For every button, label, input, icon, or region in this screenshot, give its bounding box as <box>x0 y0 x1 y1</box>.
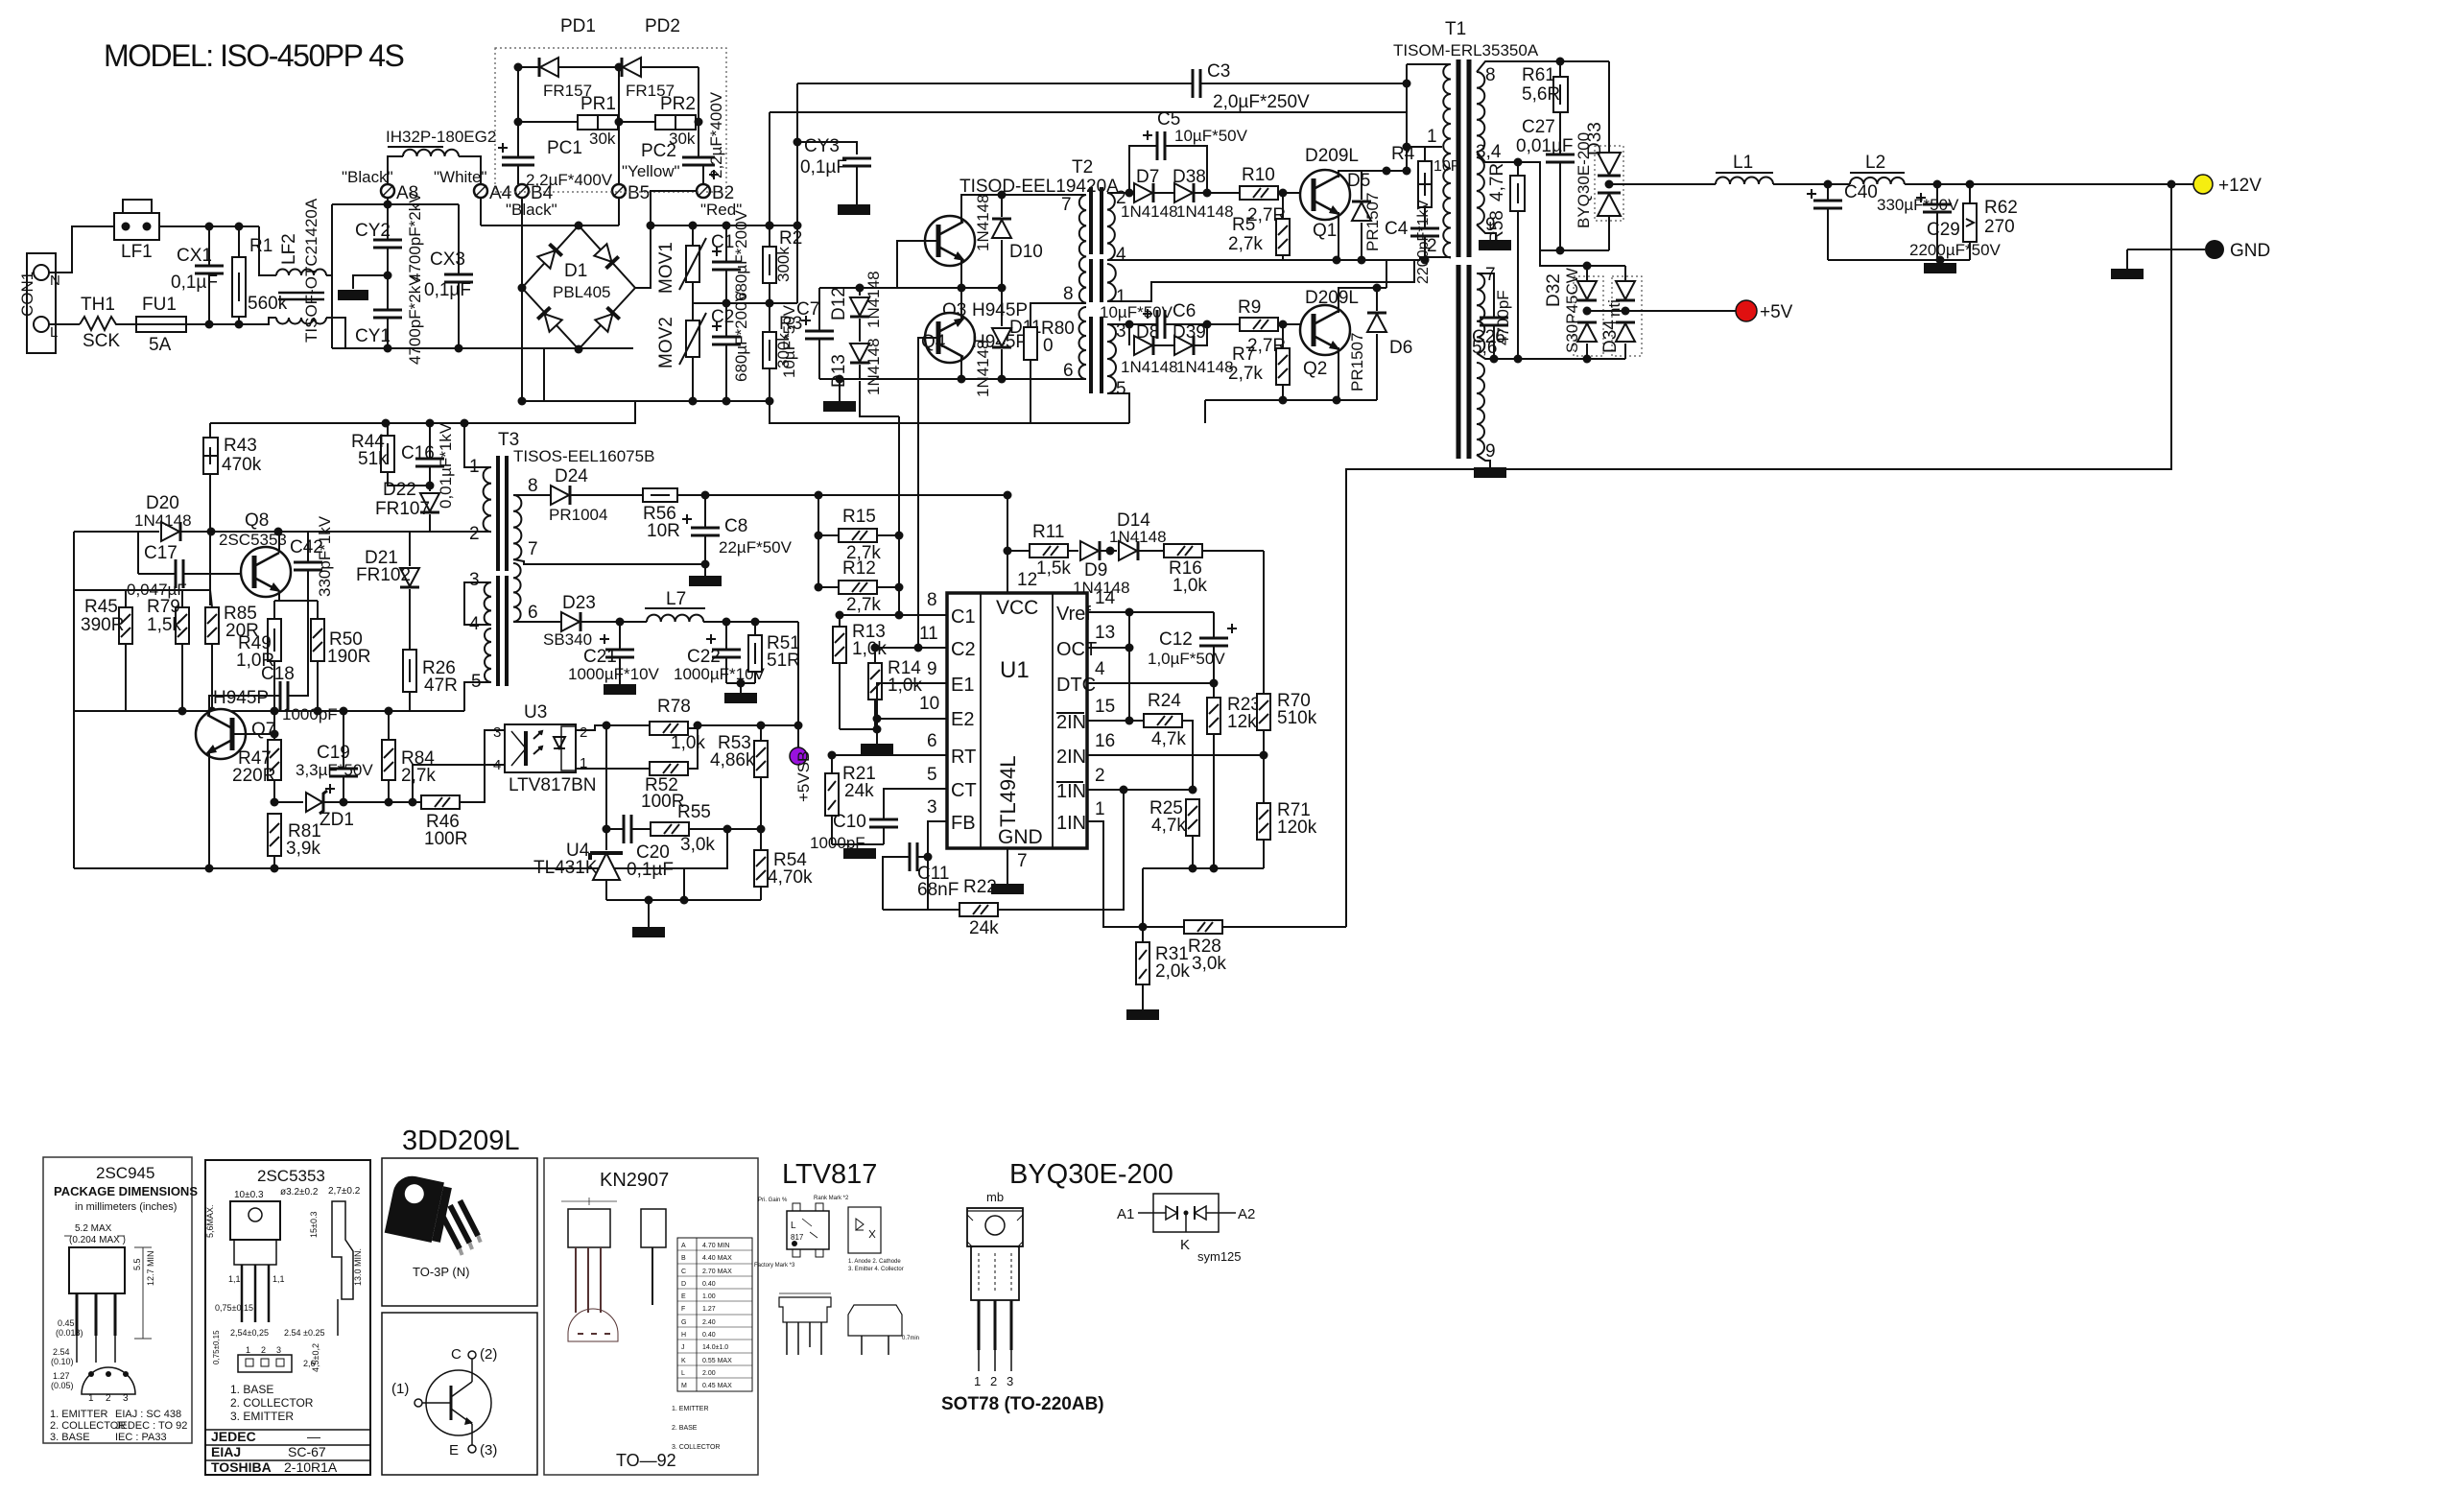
wire neg rail y418 <box>522 400 770 402</box>
capacitor C6 <box>1129 323 1157 325</box>
svg-text:3DD209L: 3DD209L <box>402 1126 520 1156</box>
bridge diode bottom-right <box>595 307 619 331</box>
wire D22 bottom <box>429 514 431 532</box>
wire CY3 bottom <box>856 166 858 204</box>
wire Q4 collector <box>960 288 962 320</box>
svg-text:GND: GND <box>998 826 1043 848</box>
junction <box>689 397 698 406</box>
svg-text:2: 2 <box>1427 236 1437 256</box>
svg-text:8: 8 <box>1485 65 1496 85</box>
svg-text:sym125: sym125 <box>1197 1249 1242 1264</box>
svg-text:0,1µF: 0,1µF <box>424 280 471 300</box>
capacitor C42 <box>307 532 309 562</box>
junction <box>1333 256 1341 265</box>
wire to R11 <box>1007 550 1030 552</box>
wire OCT row <box>1087 647 1129 649</box>
T3 winding 3-4 <box>485 582 491 625</box>
svg-text:H: H <box>681 1332 686 1339</box>
svg-text:270: 270 <box>1984 217 2015 237</box>
svg-text:C12: C12 <box>1159 629 1193 650</box>
svg-text:E2: E2 <box>951 709 974 730</box>
junction <box>723 222 731 230</box>
svg-text:3. EMITTER: 3. EMITTER <box>230 1410 294 1423</box>
svg-text:FR102: FR102 <box>356 565 411 585</box>
svg-text:D12: D12 <box>829 287 849 320</box>
junction <box>695 118 703 127</box>
ground U4 <box>632 927 665 937</box>
wire C3 rail right <box>1201 83 1407 84</box>
svg-text:mb: mb <box>986 1190 1004 1204</box>
svg-text:390R: 390R <box>81 615 124 635</box>
2SC5353 side view <box>332 1201 353 1299</box>
wire R84 bottom <box>388 780 390 802</box>
wire R28 right <box>1222 926 1346 928</box>
svg-text:D34: D34 <box>1600 320 1621 353</box>
wire bottom rail y905 <box>74 867 684 869</box>
wire PR2 right <box>696 121 699 123</box>
wire x831 vertical <box>796 83 798 303</box>
wire bridge right to B2 <box>635 191 697 288</box>
T2 winding 3-5 <box>1107 324 1116 393</box>
wire R1 top <box>238 226 240 257</box>
svg-text:R5: R5 <box>1232 215 1255 235</box>
diode D21 <box>409 532 411 566</box>
svg-text:D209L: D209L <box>1305 288 1359 308</box>
junction <box>1583 307 1592 316</box>
junction <box>645 896 653 905</box>
C8 plus <box>682 514 692 524</box>
wire Q8 collector <box>278 532 280 553</box>
svg-text:D209L: D209L <box>1305 146 1359 166</box>
junction <box>1383 167 1391 176</box>
svg-text:0.40: 0.40 <box>702 1332 716 1339</box>
wire R62 bottom <box>1969 242 1971 260</box>
wire R25 bottom <box>1192 836 1194 868</box>
junction <box>1936 256 1945 265</box>
svg-text:14.0±1.0: 14.0±1.0 <box>702 1344 728 1351</box>
wire T2 pin7 stub <box>1078 194 1086 196</box>
diode D22 symbol <box>420 493 439 512</box>
wire bottom rail y905 <box>1143 867 1264 869</box>
package box 3DD209L symbol <box>382 1313 537 1475</box>
svg-text:2IN: 2IN <box>1056 712 1086 733</box>
varistor MOV2 <box>686 320 699 357</box>
wire to R12 <box>818 586 839 588</box>
svg-text:C6: C6 <box>1173 301 1196 321</box>
junction <box>205 865 214 873</box>
junction <box>701 560 710 569</box>
junction <box>409 798 417 807</box>
svg-text:2-10R1A: 2-10R1A <box>284 1459 338 1475</box>
svg-text:5A: 5A <box>149 335 172 355</box>
svg-text:15: 15 <box>1095 697 1115 717</box>
junction <box>426 419 435 428</box>
wire R43 bottom column <box>209 474 211 605</box>
wire L1 to L2 <box>1773 183 1850 185</box>
svg-text:R1: R1 <box>249 236 272 256</box>
svg-text:PC2: PC2 <box>641 141 676 161</box>
wire CY1 bottom <box>387 318 389 348</box>
junction <box>1125 608 1134 617</box>
wire CY3 stub <box>797 142 857 154</box>
wire R62 top <box>1969 184 1971 203</box>
wire D13 bottom <box>859 365 861 379</box>
wire R16 right <box>1202 550 1264 552</box>
connector CON1 <box>27 253 56 353</box>
wire C12 bottom <box>1213 646 1215 683</box>
wire T2 pin8 stub <box>1031 303 1086 327</box>
bridge diode bottom-left <box>537 307 561 331</box>
wire U3 pin1 to R52 <box>576 768 650 770</box>
svg-text:R12: R12 <box>842 558 876 579</box>
wire C7 top <box>818 288 820 331</box>
svg-text:0.55 MAX: 0.55 MAX <box>702 1358 732 1364</box>
svg-text:12: 12 <box>1017 570 1037 590</box>
wire C22 bottom <box>725 657 727 683</box>
wire D20 right <box>180 531 210 533</box>
wire PD1-PD2 <box>558 66 622 68</box>
wire rail y741 <box>74 710 464 712</box>
wire Q2 emitter <box>1338 347 1339 400</box>
wire MOV2 bottom <box>692 357 694 401</box>
T2 secondary winding 2-4 <box>1107 193 1115 260</box>
terminal B4 <box>515 184 529 198</box>
wire x1466 vertical <box>1406 64 1408 171</box>
wire R13 top <box>839 615 841 627</box>
junction <box>455 344 463 353</box>
svg-text:D7: D7 <box>1136 167 1159 187</box>
capacitor CX3 plates <box>444 274 473 282</box>
resistor R22 symbol <box>960 903 998 916</box>
wire C2 row <box>875 647 947 649</box>
wire x937 vertical <box>898 416 900 615</box>
C12 plus <box>1227 624 1237 633</box>
diode D13 symbol <box>850 344 869 363</box>
wire A8 down <box>387 198 389 204</box>
capacitor PC2 plates <box>682 157 715 165</box>
T3 winding 8-7 <box>513 495 521 559</box>
T2 primary winding 7-8 <box>1079 195 1086 303</box>
junction <box>701 491 710 500</box>
svg-text:220R: 220R <box>232 766 275 786</box>
wire R51 top <box>754 622 756 635</box>
svg-text:3: 3 <box>276 1345 281 1355</box>
junction <box>794 722 803 730</box>
junction <box>385 798 393 807</box>
svg-text:"Black": "Black" <box>342 168 393 186</box>
junction <box>1966 180 1975 189</box>
wire R11-D9 <box>1068 550 1078 552</box>
diode D38 symbol <box>1174 183 1194 202</box>
svg-text:B5: B5 <box>628 183 650 203</box>
svg-text:9: 9 <box>1485 441 1496 462</box>
wire B4 column up <box>517 67 519 157</box>
junction <box>766 299 774 308</box>
inductor IH32P-180EG2 <box>403 150 459 156</box>
wire U3 pin2 down <box>605 725 607 829</box>
wire MOV1 bottom <box>692 282 694 303</box>
BYQ30E symbol diodes <box>1166 1206 1177 1220</box>
svg-text:H945P: H945P <box>213 688 269 708</box>
resistor R31 <box>1136 942 1149 984</box>
wire R7 top <box>1282 324 1284 348</box>
resistor R47 symbol <box>268 740 281 780</box>
wire left vertical CY <box>331 204 333 348</box>
svg-text:in millimeters (inches): in millimeters (inches) <box>75 1201 177 1213</box>
svg-text:C7: C7 <box>796 299 819 320</box>
junction <box>723 397 731 406</box>
wire R23 top <box>1213 683 1215 698</box>
diode D24 symbol <box>551 486 570 505</box>
junction <box>895 532 904 540</box>
svg-text:L: L <box>50 324 58 341</box>
wire y364 to y418 <box>543 349 545 401</box>
svg-text:D5: D5 <box>1347 171 1370 191</box>
wire A4 down <box>480 198 482 225</box>
2SC5353 bottom view <box>238 1355 292 1372</box>
svg-text:CT: CT <box>951 780 977 801</box>
svg-text:8: 8 <box>1063 284 1074 304</box>
svg-text:J: J <box>681 1344 685 1351</box>
terminal A4 <box>474 184 487 198</box>
svg-text:D1: D1 <box>564 261 587 281</box>
svg-text:7: 7 <box>1061 195 1072 215</box>
diode D20 <box>74 531 159 533</box>
svg-text:M: M <box>681 1383 687 1389</box>
wire R49 bottom <box>273 661 275 711</box>
wire T2 pin5 stub <box>1107 393 1129 423</box>
svg-text:LF2: LF2 <box>279 233 299 265</box>
junction <box>723 825 732 834</box>
resistor R23 symbol <box>1207 698 1220 734</box>
junction <box>208 707 217 716</box>
svg-text:470k: 470k <box>222 455 262 475</box>
diode D6 <box>1376 288 1378 311</box>
svg-text:4: 4 <box>469 614 480 634</box>
svg-text:R10: R10 <box>1242 165 1275 185</box>
svg-text:2,7k: 2,7k <box>401 766 436 786</box>
svg-text:10: 10 <box>919 694 939 714</box>
svg-text:0,75±0,15: 0,75±0,15 <box>212 1330 221 1364</box>
svg-text:10±0.3: 10±0.3 <box>234 1190 264 1200</box>
svg-text:D32: D32 <box>1544 273 1564 307</box>
svg-text:100R: 100R <box>424 829 467 849</box>
svg-text:560k: 560k <box>248 294 288 314</box>
ground C22 <box>724 693 757 703</box>
wire R13 bottom <box>839 663 841 729</box>
capacitor C17 plates <box>176 559 183 588</box>
junction <box>766 222 774 230</box>
wire R84 top <box>388 711 390 740</box>
svg-text:T1: T1 <box>1445 19 1466 39</box>
svg-text:3. Emitter 4. Collector: 3. Emitter 4. Collector <box>848 1267 904 1272</box>
wire T2 pin2 stub <box>1107 192 1129 194</box>
junction <box>873 715 882 723</box>
svg-text:A2: A2 <box>1238 1206 1255 1222</box>
svg-text:1N4148: 1N4148 <box>1121 202 1178 221</box>
svg-text:TISOF-OTC21420A: TISOF-OTC21420A <box>302 198 320 343</box>
svg-text:0.45 MAX: 0.45 MAX <box>702 1383 732 1389</box>
wire R3 top <box>769 303 770 332</box>
svg-text:D24: D24 <box>555 466 588 486</box>
wire D13 to x937 <box>860 381 899 416</box>
svg-text:EIAJ : SC 438: EIAJ : SC 438 <box>115 1409 181 1420</box>
svg-text:0.7min: 0.7min <box>902 1336 919 1341</box>
wire gnd stub <box>740 683 742 693</box>
svg-text:4700pF*2kV: 4700pF*2kV <box>406 274 424 365</box>
svg-text:FB: FB <box>951 813 976 834</box>
wire B5 down <box>618 198 620 225</box>
wire C5 right <box>1165 146 1207 193</box>
diode PD1 <box>539 58 558 77</box>
diode D9 symbol <box>1080 541 1100 560</box>
svg-text:EIAJ: EIAJ <box>211 1444 241 1459</box>
junction <box>514 118 523 127</box>
svg-text:2: 2 <box>469 524 480 544</box>
svg-text:R2: R2 <box>779 228 802 249</box>
resistor PR2 <box>655 115 696 130</box>
inductor L1 <box>1716 178 1773 184</box>
svg-text:1,0k: 1,0k <box>1173 576 1207 596</box>
wire T3 pin1 <box>464 423 491 467</box>
wire C6 right <box>1165 323 1207 325</box>
junction <box>1514 355 1523 364</box>
svg-text:2: 2 <box>106 1393 111 1404</box>
junction <box>178 707 187 716</box>
svg-text:FR107: FR107 <box>375 499 430 519</box>
wire R44 top <box>387 423 389 436</box>
junction <box>895 583 904 592</box>
junction <box>426 482 435 490</box>
svg-text:D39: D39 <box>1173 322 1206 343</box>
junction <box>1490 355 1499 364</box>
junction <box>737 679 746 688</box>
svg-text:"White": "White" <box>434 168 487 186</box>
junction <box>340 707 348 716</box>
wire to ground D13 <box>839 379 841 401</box>
junction <box>794 222 802 230</box>
svg-text:3,4: 3,4 <box>1476 142 1502 162</box>
wire R85 bottom <box>211 644 213 711</box>
svg-text:IEC : PA33: IEC : PA33 <box>115 1432 167 1443</box>
ground output filter <box>1924 263 1956 273</box>
wire T1 pin1 stub <box>1407 146 1442 148</box>
resistor R2 <box>763 247 776 283</box>
wire D8-D39 <box>1153 344 1174 346</box>
svg-text:1N4148: 1N4148 <box>974 194 992 251</box>
svg-text:3: 3 <box>493 724 501 741</box>
svg-text:4700pF: 4700pF <box>1494 290 1512 345</box>
svg-text:9: 9 <box>927 659 937 679</box>
svg-text:1,0k: 1,0k <box>852 639 887 659</box>
wire R47 bottom <box>273 780 275 802</box>
diode D10 <box>1001 195 1003 217</box>
svg-text:A1: A1 <box>1117 1206 1134 1222</box>
terminal B2 <box>697 184 710 198</box>
diode D14 symbol <box>1119 541 1138 560</box>
svg-text:PC1: PC1 <box>547 138 582 158</box>
svg-text:C3: C3 <box>1207 61 1230 82</box>
wire TH1-FU1 <box>118 323 136 325</box>
junction <box>1106 547 1115 556</box>
svg-text:R4: R4 <box>1391 144 1415 164</box>
svg-text:PR1507: PR1507 <box>1363 193 1382 251</box>
svg-text:5: 5 <box>471 672 482 692</box>
wire T1 pin 5,6 row <box>1477 353 1625 359</box>
capacitor C1 plates <box>712 262 741 270</box>
wire x802 vertical <box>769 112 770 225</box>
wire R52 to R78 <box>688 728 698 769</box>
resistor R14 symbol <box>868 663 882 700</box>
junction <box>340 798 348 807</box>
junction <box>205 223 214 231</box>
capacitor C8 plates <box>691 528 720 535</box>
wire T1 pin9 stub <box>1477 225 1496 240</box>
junction <box>680 896 689 905</box>
junction <box>1139 923 1148 932</box>
svg-text:0,1µF: 0,1µF <box>627 860 674 880</box>
bridge diode top-right <box>594 244 618 268</box>
junction <box>382 419 391 428</box>
svg-text:(2): (2) <box>480 1346 497 1363</box>
svg-text:+12V: +12V <box>2218 176 2262 196</box>
svg-text:1N4148: 1N4148 <box>1176 202 1234 221</box>
svg-text:C17: C17 <box>144 543 178 563</box>
junction <box>815 491 823 500</box>
svg-text:TH1: TH1 <box>81 295 115 315</box>
svg-text:1. BASE: 1. BASE <box>230 1383 273 1396</box>
wire R54 bottom <box>760 887 762 900</box>
wire Q7 base <box>232 733 274 735</box>
wire D34 bottom <box>1624 344 1626 359</box>
wire R14 bottom <box>874 700 876 729</box>
wire CY2 top <box>387 204 389 240</box>
svg-text:4: 4 <box>1116 245 1126 265</box>
wire rail y363 <box>332 347 633 349</box>
terminal B5 <box>612 184 626 198</box>
wire LF2 bottom-right <box>326 318 345 348</box>
C6 plus <box>1143 309 1152 319</box>
resistor R58 <box>1510 176 1525 211</box>
capacitor C8 <box>704 495 706 528</box>
svg-text:C: C <box>681 1269 686 1275</box>
svg-text:Vref: Vref <box>1056 604 1091 625</box>
capacitor C12 plates <box>1199 638 1228 646</box>
svg-text:0,01µF: 0,01µF <box>1516 136 1574 156</box>
wire R50 bottom <box>317 661 319 711</box>
capacitor C4 plates <box>1410 228 1439 236</box>
resistor R21 <box>825 773 839 816</box>
wire to +5V <box>1625 310 1738 312</box>
svg-text:4.70 MIN: 4.70 MIN <box>702 1243 729 1249</box>
svg-text:12.7 MIN: 12.7 MIN <box>146 1250 155 1286</box>
wire R22 to 1IN <box>998 790 1124 910</box>
wire R2 top <box>769 225 770 247</box>
wire C1 row <box>899 614 947 616</box>
wire LF2 top-left <box>259 226 276 275</box>
wire CT <box>884 789 947 819</box>
wire R80 down <box>1030 379 1031 424</box>
wire C16 bottom <box>429 466 431 491</box>
capacitor C19 <box>343 711 344 769</box>
svg-text:1,1: 1,1 <box>272 1274 285 1284</box>
package box 2SC945 <box>43 1157 192 1443</box>
resistor R84 symbol <box>382 740 395 780</box>
svg-text:1. EMITTER: 1. EMITTER <box>50 1409 108 1420</box>
wire U4 bottom rail <box>606 899 761 901</box>
wire U3 pin4 <box>413 765 505 802</box>
svg-text:G: G <box>681 1319 686 1326</box>
